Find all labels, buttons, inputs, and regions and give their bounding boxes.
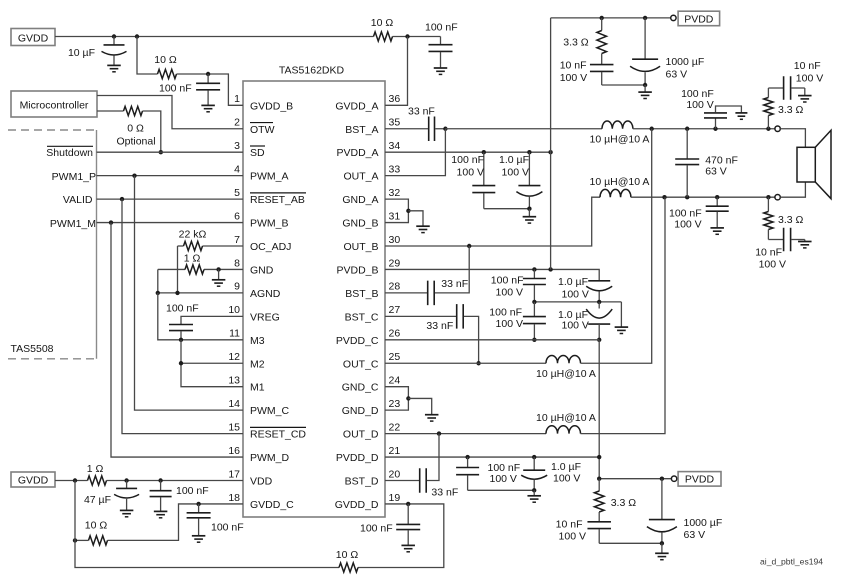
inductor 10 uH (B) [600,189,631,197]
speaker [797,147,815,182]
svg-text:100 nF: 100 nF [159,82,192,94]
junction PVDD_A 100nF [482,150,486,154]
svg-text:Optional: Optional [116,135,155,147]
svg-text:10 µH@10 A: 10 µH@10 A [536,412,596,424]
resistor 1 ohm VDD [88,476,107,485]
svg-text:GND_B: GND_B [342,218,378,230]
svg-text:4: 4 [234,163,240,175]
ground (VDD 100nF) [154,510,168,512]
ground (PVDD_D pair) [533,490,535,495]
inductor 10 uH (A) [602,121,633,129]
svg-text:10 nF: 10 nF [794,60,821,72]
ground (PVDD top) [644,85,646,92]
ground (GVDD_C 100nF) [192,535,206,537]
wire AGND down to M3 [158,293,178,340]
wire PVDD bottom ground bus [599,542,662,544]
junction PVDD_B rail [548,267,552,271]
capacitor 100 nF 100 V (PVDD_A) [483,152,485,185]
svg-text:12: 12 [228,351,240,363]
capacitor 1000 uF 63 V (PVDD bottom) [661,479,663,519]
junction VALID [120,197,124,201]
capacitor 10 nF 100 V (PVDD bottom) [587,521,611,523]
junction mid bus right [597,300,601,304]
svg-text:13: 13 [228,375,240,387]
junction bus [532,488,536,492]
svg-text:21: 21 [389,445,401,457]
svg-text:OUT_C: OUT_C [343,358,379,370]
svg-text:OTW: OTW [250,124,275,136]
resistor 1 ohm GND [185,265,204,274]
svg-text:SD: SD [250,147,265,159]
svg-text:AGND: AGND [250,288,281,300]
junction 1000uF bottom [660,477,664,481]
junction GVDD rail branch to pin1 filter [135,34,139,38]
ground (47 uF) [120,509,134,511]
wire VALID to pin 5 RESET_AB [97,198,244,200]
svg-text:GVDD_B: GVDD_B [250,100,293,112]
node GVDD (top terminal box) [11,29,55,46]
svg-text:OC_ADJ: OC_ADJ [250,241,291,253]
node output terminal plus [775,126,780,131]
svg-text:PWM_C: PWM_C [250,405,290,417]
wire GVDD bottom rail to GVDD_D [75,481,339,568]
svg-text:28: 28 [389,281,401,293]
ground (pin1 filter) [201,104,215,106]
capacitor 33 nF BST_A [428,117,430,142]
node GVDD (bottom terminal box) [11,472,55,487]
wire PWM1_M to pin 6 PWM_B [97,222,244,224]
capacitor 470 nF 63 V [686,129,688,159]
svg-text:VALID: VALID [63,194,93,206]
svg-text:3.3 Ω: 3.3 Ω [611,497,637,509]
junction PVDD_D 100nF [465,455,469,459]
junction mid bus left [532,300,536,304]
wire OUT_B inductor to speaker [631,196,775,198]
wire branch down to 10 ohm [137,37,158,75]
svg-text:ai_d_pbtl_es194: ai_d_pbtl_es194 [760,557,823,567]
svg-text:OUT_B: OUT_B [343,241,378,253]
junction GND_AB [406,209,410,213]
junction [643,83,647,87]
junction PVDD_B 100nF [532,267,536,271]
svg-text:2: 2 [234,117,240,129]
wire BST_C cap to OUT_C [464,316,479,363]
svg-text:M2: M2 [250,358,265,370]
junction 470nF top [685,127,689,131]
junction 3.3 ohm snubber B [766,195,770,199]
wire PVDD_A decoupling ground bus [484,208,530,210]
svg-text:27: 27 [389,304,401,316]
svg-text:M3: M3 [250,335,265,347]
capacitor 1000 uF 63 V (PVDD top) [644,18,646,59]
svg-text:32: 32 [389,187,401,199]
junction GVDD_C 100nF [196,502,200,506]
svg-text:100 nF: 100 nF [211,521,244,533]
svg-text:100 V: 100 V [553,473,580,485]
capacitor 100 nF 100 V (snubber A2) [715,118,717,128]
ground (GND_C/D) [408,398,431,414]
svg-text:6: 6 [234,210,240,222]
junction AGND left [156,291,160,295]
wire OUT_D inductor to tie [581,197,666,433]
wire AGND pin 9 [158,292,243,294]
svg-text:PWM_D: PWM_D [250,452,290,464]
wire PVDD_C pin 26 [385,339,599,341]
capacitor 10 nF 100 V (snubber B) [768,239,783,241]
ground (snubber A2) [735,112,747,114]
svg-text:34: 34 [389,140,401,152]
svg-text:31: 31 [389,210,401,222]
ground (snubber B2) [710,227,724,229]
wire 0 ohm to SD line [143,111,161,152]
junction 3.3 ohm top [600,16,604,20]
junction 100nF pin1 filter [206,72,210,76]
inductor 10 uH (D) [546,426,581,434]
svg-text:22 kΩ: 22 kΩ [179,229,207,241]
capacitor 1.0 uF 100 V (PVDD_C) [598,302,600,309]
svg-text:PVDD_D: PVDD_D [336,452,379,464]
wire VREG pin 10 to 100nF [181,316,243,324]
junction PVDD_A 1uF [527,150,531,154]
svg-text:1000 µF: 1000 µF [666,56,705,68]
wire PWM1_P to pin 4 PWM_A [97,175,244,177]
resistor 10 ohm (pin1 filter) [158,69,177,78]
svg-text:RESET_AB: RESET_AB [250,194,305,206]
junction PVDD_D 1uF [532,455,536,459]
wire M3 to M2 to M1 [181,340,243,387]
svg-text:GVDD_C: GVDD_C [250,499,294,511]
wire OUT_D pin 22 [385,433,546,435]
ground (GVDD_D 100nF) [401,544,415,546]
junction 47uF [124,478,128,482]
junction [660,541,664,545]
wire GVDD_C pin 18 [108,504,244,540]
svg-text:33 nF: 33 nF [431,487,458,499]
ground (PVDD_A pair) [528,209,530,217]
svg-text:GVDD: GVDD [18,33,49,45]
wire BST_B cap to OUT_B [435,246,469,293]
svg-text:8: 8 [234,257,240,269]
svg-text:1: 1 [234,93,240,105]
wire PVDD_B pin 29 [385,269,599,280]
node PVDD terminal (top) [671,15,676,20]
junction 100nF snubber A [713,127,717,131]
svg-text:10 µH@10 A: 10 µH@10 A [536,368,596,380]
svg-text:20: 20 [389,468,401,480]
svg-text:100 V: 100 V [490,473,517,485]
wire GVDD_A riser to pin 36 [385,37,408,106]
svg-text:35: 35 [389,117,401,129]
wire VALID to pin 15 RESET_CD [122,199,243,434]
wire OUT_A inductor to speaker [633,128,775,130]
svg-text:VREG: VREG [250,311,280,323]
ground (GND_A/B) [408,211,423,226]
wire 1 ohm to AGND [157,269,159,292]
svg-text:10 nF: 10 nF [560,60,587,72]
svg-text:63 V: 63 V [684,529,706,541]
svg-text:100 nF: 100 nF [166,303,199,315]
svg-text:16: 16 [228,445,240,457]
svg-text:33: 33 [389,163,401,175]
svg-text:10 µH@10 A: 10 µH@10 A [590,133,650,145]
svg-text:BST_D: BST_D [345,476,379,488]
capacitor 100 nF (GVDD_D) [407,504,409,524]
wire PVDD rail (top) [550,18,552,270]
svg-text:Shutdown: Shutdown [46,147,93,159]
wire OUT_A to inductor [445,128,602,130]
inductor 10 uH (C) [546,355,581,363]
svg-text:100 nF: 100 nF [489,306,522,318]
wire BST cap to OUT_A node [435,128,445,130]
svg-text:GND_C: GND_C [342,382,379,394]
svg-text:BST_B: BST_B [345,288,378,300]
junction 1000uF top [643,16,647,20]
junction GVDD rail bottom [73,538,77,542]
wire OC_ADJ left segment [178,245,184,247]
junction M3 [179,338,183,342]
svg-text:1 Ω: 1 Ω [184,252,201,264]
junction PVDD_C 100nF [532,338,536,342]
svg-text:47 µF: 47 µF [84,494,111,506]
ground (10 uF) [107,64,121,66]
svg-text:RESET_CD: RESET_CD [250,429,306,441]
wire Shutdown to pin 3 SD [97,151,244,153]
svg-text:GVDD_A: GVDD_A [335,100,378,112]
svg-text:100 V: 100 V [796,73,823,85]
op-amp U1 TAS5162DKD body [243,81,385,517]
svg-text:100 V: 100 V [686,99,713,111]
svg-text:29: 29 [389,257,401,269]
ground (snubber A) [804,88,806,95]
svg-text:14: 14 [228,398,240,410]
svg-text:100 nF: 100 nF [491,275,524,287]
wire BST_C pin 27 [385,315,456,317]
wire M3 pin 11 [178,339,244,341]
wire PVDD top ground bus [602,84,645,86]
svg-text:PWM_A: PWM_A [250,171,289,183]
junction GND_CD [406,396,410,400]
svg-text:GVDD_D: GVDD_D [335,499,379,511]
svg-text:100 V: 100 V [562,288,589,300]
svg-text:19: 19 [389,492,401,504]
node output terminal minus [775,195,780,200]
junction 470nF bottom [685,195,689,199]
resistor 10 ohm (GVDD_A rail) [374,32,393,41]
svg-text:1.0 µF: 1.0 µF [551,461,581,473]
wire decoupling mid ground bus [534,301,621,303]
svg-text:9: 9 [234,281,240,293]
wire PVDD_D pin 21 [385,456,599,458]
junction PVDD rail bottom [597,477,601,481]
svg-text:100 nF: 100 nF [451,154,484,166]
svg-text:GND_D: GND_D [342,405,379,417]
junction OUT_B bootstrap [467,244,471,248]
wire BST_D cap to OUT_D [427,434,439,481]
capacitor 1.0 uF 100 V (PVDD_D) [533,457,535,470]
svg-text:100 V: 100 V [496,318,523,330]
svg-text:GVDD: GVDD [18,475,49,487]
svg-text:63 V: 63 V [705,165,727,177]
svg-text:100 V: 100 V [559,531,586,543]
wire OUT_A pin 33 riser [385,129,445,176]
svg-text:3.3 Ω: 3.3 Ω [563,37,589,49]
wire BST_D pin 20 [385,480,419,482]
wire PWM1_P to pin 14 PWM_C [135,176,244,411]
ground (PVDD bottom) [661,543,663,553]
svg-text:GND_A: GND_A [342,194,378,206]
svg-text:PVDD_B: PVDD_B [336,264,378,276]
junction GVDD bottom [73,478,77,482]
wire GND_C GND_D bracket [385,387,408,410]
svg-text:7: 7 [234,234,240,246]
svg-text:100 nF: 100 nF [488,462,521,474]
svg-text:1.0 µF: 1.0 µF [499,154,529,166]
junction AGND 22k [175,291,179,295]
junction OUT_A bootstrap [443,127,447,131]
svg-text:10: 10 [228,304,240,316]
svg-text:100 V: 100 V [496,287,523,299]
junction OUT_D bootstrap [437,431,441,435]
wire BST_A pin 35 [385,128,428,130]
svg-text:100 V: 100 V [562,319,589,331]
junction OUT_B/OUT_D tie [662,195,666,199]
resistor 3.3 ohm (PVDD bottom) [598,479,600,492]
capacitor 100 nF (GVDD_A) [440,37,442,45]
svg-text:Microcontroller: Microcontroller [20,100,89,112]
svg-text:10 Ω: 10 Ω [336,549,359,561]
svg-text:PWM_B: PWM_B [250,218,289,230]
svg-text:63 V: 63 V [666,68,688,80]
svg-text:OUT_A: OUT_A [343,171,378,183]
capacitor 100 nF (pin1 filter) [207,74,209,83]
svg-text:33 nF: 33 nF [426,320,453,332]
svg-text:10 nF: 10 nF [556,518,583,530]
resistor 3.3 ohm (snubber B) [767,197,769,211]
wire microcontroller to 0 ohm [97,110,124,112]
svg-text:VDD: VDD [250,476,273,488]
svg-text:24: 24 [389,375,401,387]
wire microcontroller to pin 2 OTW [97,96,243,129]
svg-text:10 Ω: 10 Ω [154,54,177,66]
svg-text:TAS5508: TAS5508 [11,343,54,355]
wire PWM1_M to pin 16 PWM_D [111,223,243,457]
svg-text:100 V: 100 V [502,167,529,179]
wire terminal to speaker top [780,129,805,148]
capacitor 10 nF 100 V (PVDD top) [590,64,614,66]
junction PWM1_P [132,173,136,177]
wire terminal to speaker bottom [780,182,805,197]
svg-text:25: 25 [389,351,401,363]
svg-text:BST_C: BST_C [345,311,379,323]
svg-text:1000 µF: 1000 µF [684,517,723,529]
svg-text:10 nF: 10 nF [755,247,782,259]
capacitor 1.0 uF 100 V (PVDD_A) [528,152,530,185]
svg-text:GND: GND [250,264,274,276]
junction M2 [179,361,183,365]
svg-text:3: 3 [234,140,240,152]
svg-text:10 Ω: 10 Ω [85,519,108,531]
svg-text:PWM1_M: PWM1_M [50,218,96,230]
capacitor 33 nF BST_B [427,281,429,306]
wire PVDD bottom feed [599,478,671,480]
svg-text:10 µF: 10 µF [68,47,95,59]
svg-text:100 nF: 100 nF [176,485,209,497]
wire OUT_C pin 25 [385,362,546,364]
svg-text:100 V: 100 V [759,259,786,271]
wire 22k to AGND [177,246,179,293]
capacitor 100 nF (VREG) [169,324,193,326]
wire BST_B pin 28 [385,292,427,294]
resistor 22 kohm OC_ADJ [184,241,203,250]
svg-text:BST_A: BST_A [345,124,378,136]
svg-text:100 nF: 100 nF [360,523,393,535]
wire PVDD top feed [551,17,671,19]
junction GVDD_A node [405,34,409,38]
wire OUT_B pin 30 [385,197,600,246]
junction SD [159,150,163,154]
capacitor 100 nF 100 V (PVDD_B) [533,269,535,278]
svg-text:M1: M1 [250,382,265,394]
svg-text:PVDD: PVDD [684,13,714,25]
svg-text:26: 26 [389,328,401,340]
svg-text:17: 17 [228,468,240,480]
resistor 3.3 ohm (snubber A) [767,116,769,129]
svg-text:33 nF: 33 nF [441,278,468,290]
svg-text:15: 15 [228,421,240,433]
junction 100nF snubber B [715,195,719,199]
svg-text:30: 30 [389,234,401,246]
junction ground bus [527,207,531,211]
svg-text:100 nF: 100 nF [669,207,702,219]
svg-text:PWM1_P: PWM1_P [52,171,96,183]
svg-text:10 µH@10 A: 10 µH@10 A [590,176,650,188]
svg-text:100 V: 100 V [560,72,587,84]
svg-text:3.3 Ω: 3.3 Ω [778,104,804,116]
svg-text:23: 23 [389,398,401,410]
wire PVDD rail (bottom) [598,340,600,479]
capacitor 33 nF BST_D [419,468,421,493]
junction PVDD_A rail [548,150,552,154]
wire OUT_C inductor to tie [581,129,652,364]
junction OUT_C bootstrap [476,361,480,365]
resistor 0 ohm optional [124,106,143,115]
junction 100nF VDD [158,478,162,482]
junction GVDD_D 100nF [406,502,410,506]
capacitor 100 nF 100 V (PVDD_D) [467,457,469,467]
wire 10 ohm to pin 1 GVDD_B [177,74,244,105]
svg-text:18: 18 [228,492,240,504]
svg-text:3.3 Ω: 3.3 Ω [778,214,804,226]
ground (GVDD_A 100nF) [434,67,448,69]
junction GND pin8 ground [216,267,220,271]
wire GVDD top rail [55,36,374,38]
node TAS5508 block boundary [8,129,97,131]
svg-text:10 Ω: 10 Ω [371,17,394,29]
wire GND_A GND_B bracket [385,199,408,222]
junction OUT_A/OUT_C tie [650,127,654,131]
svg-text:PVDD_A: PVDD_A [336,147,378,159]
svg-text:5: 5 [234,187,240,199]
ground (mid bus) [620,302,622,327]
svg-text:100 V: 100 V [457,167,484,179]
junction 3.3 ohm snubber A [766,127,770,131]
svg-text:0 Ω: 0 Ω [127,122,144,134]
resistor 10 ohm GVDD_C [89,536,108,545]
svg-text:TAS5162DKD: TAS5162DKD [279,65,345,77]
capacitor 100 nF 100 V (PVDD_C) [533,302,535,316]
svg-text:OUT_D: OUT_D [343,429,379,441]
svg-text:1 Ω: 1 Ω [87,463,104,475]
